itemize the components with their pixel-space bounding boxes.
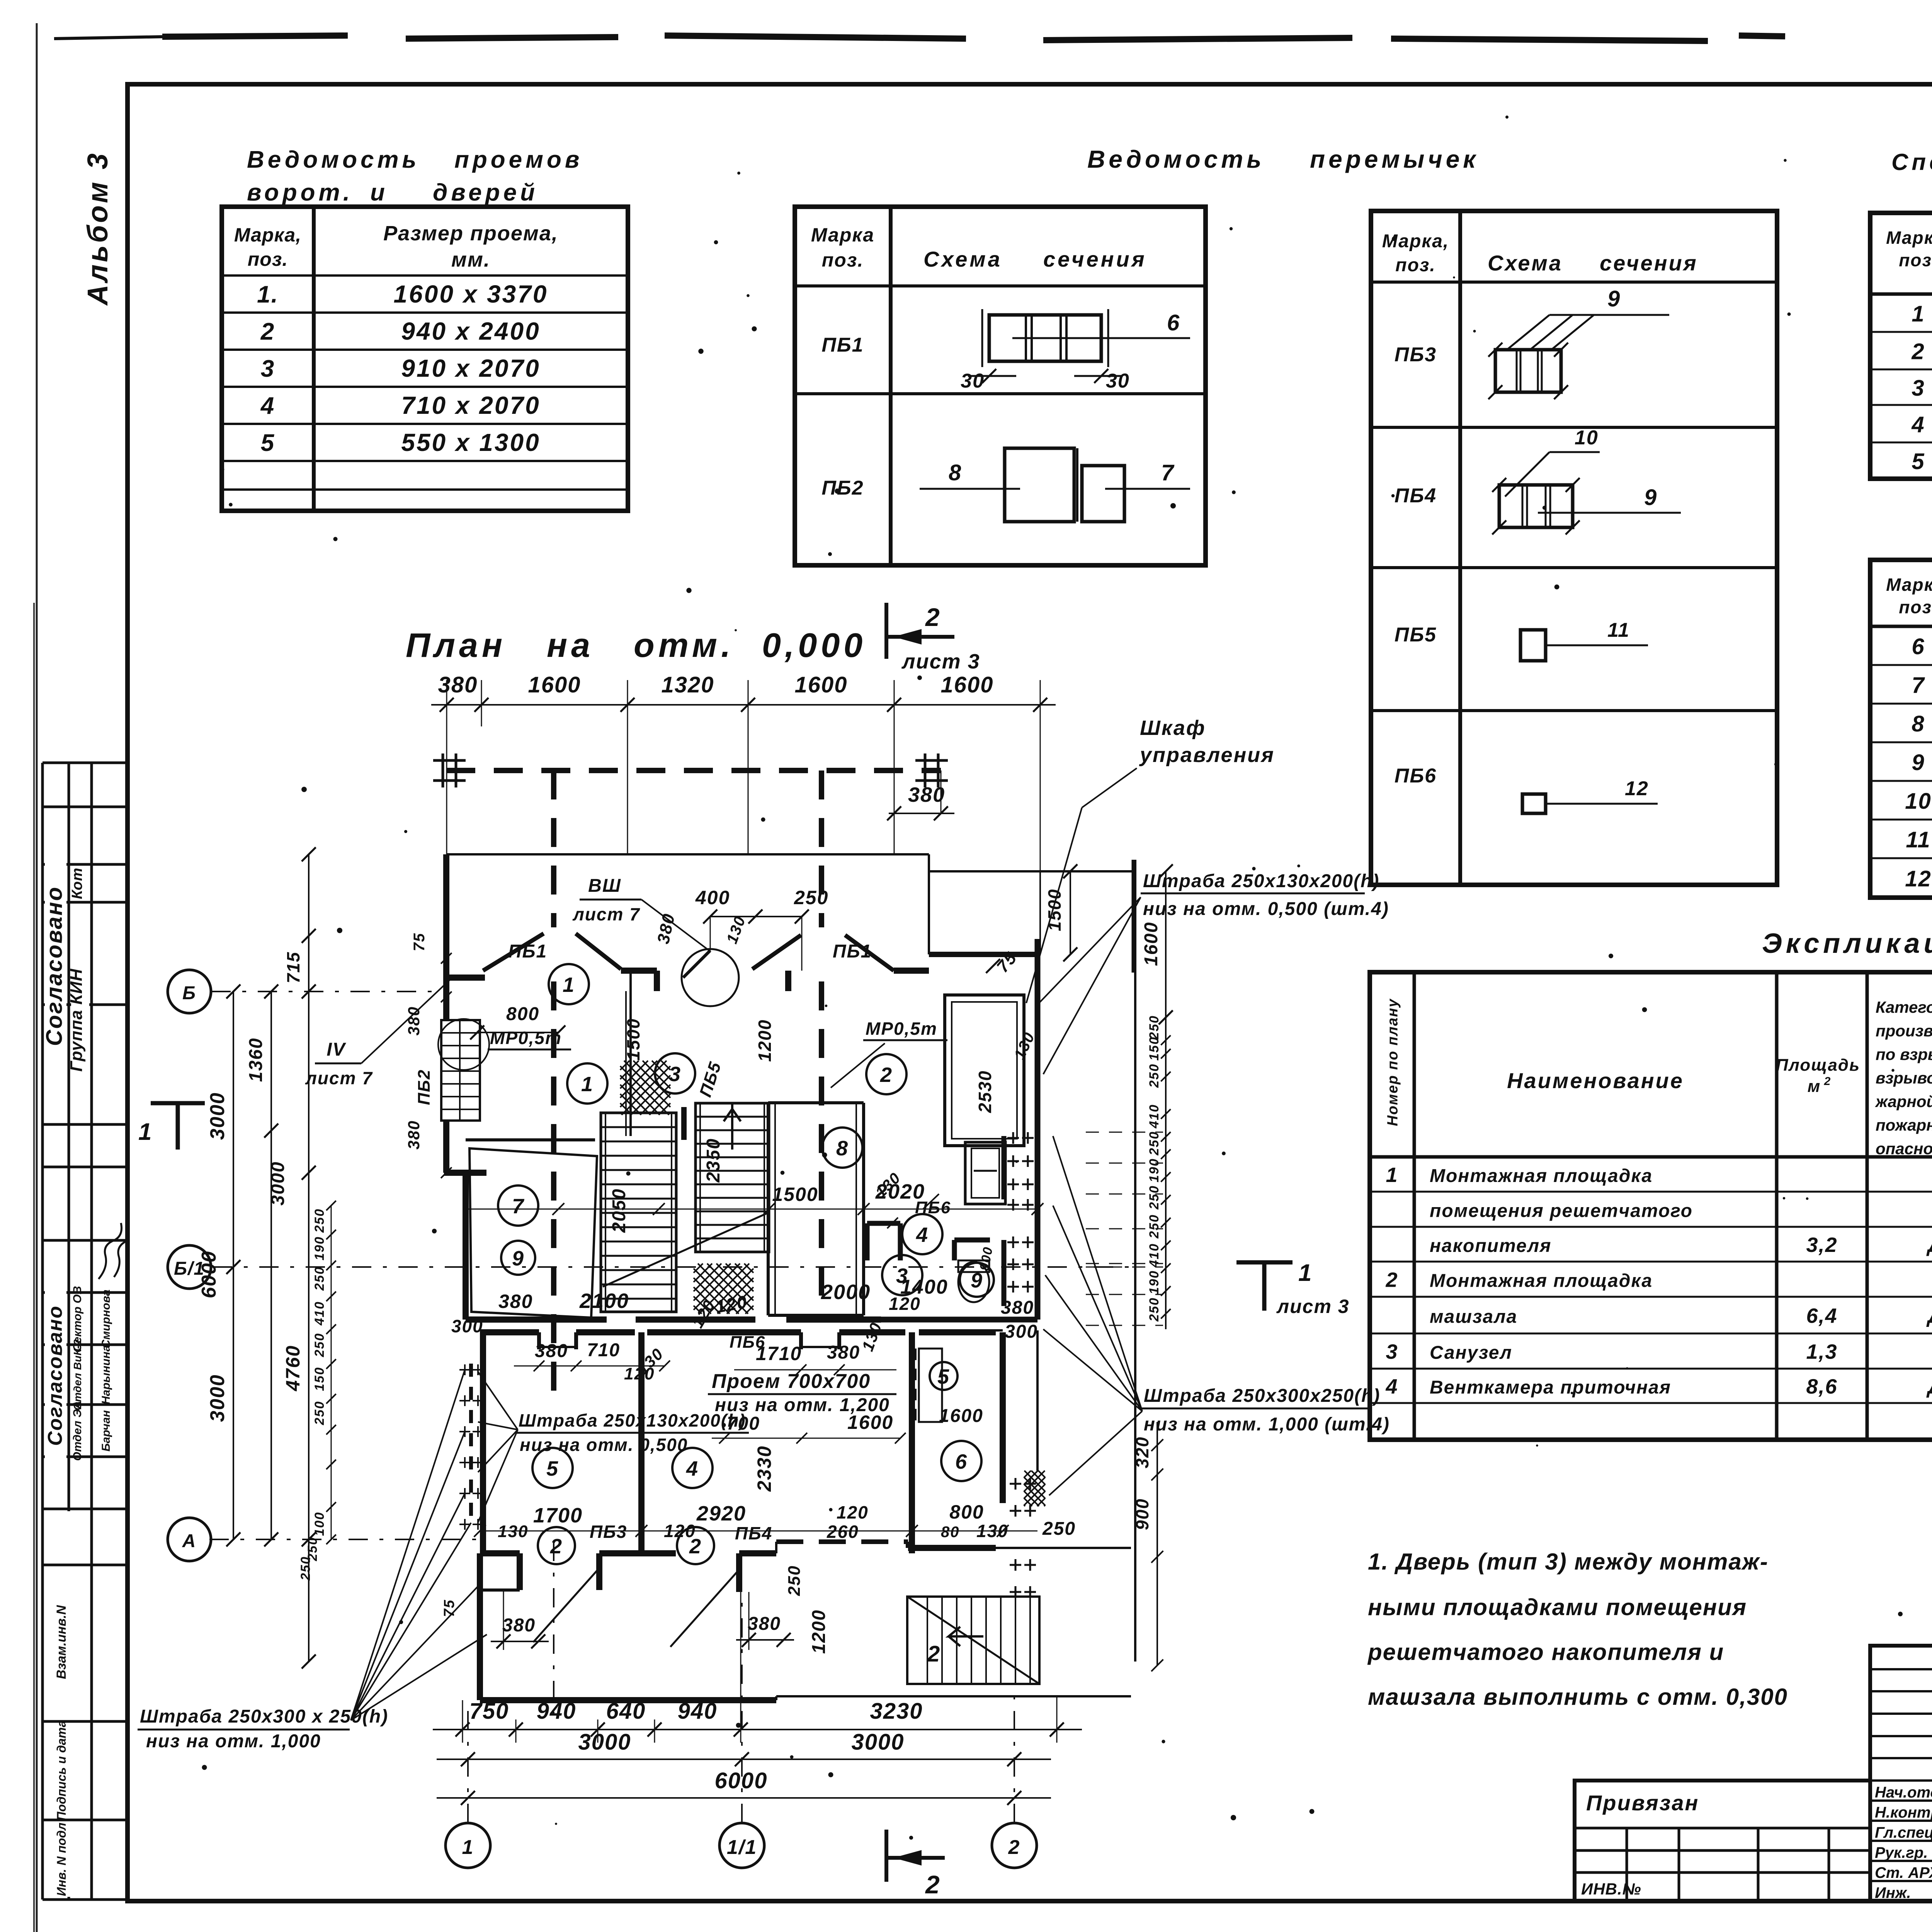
svg-text:2: 2 [1824, 1075, 1832, 1088]
svg-text:Кот: Кот [69, 867, 85, 899]
svg-text:Марка,: Марка, [1886, 228, 1932, 248]
svg-text:ПБ2: ПБ2 [821, 477, 864, 499]
svg-text:10: 10 [1575, 427, 1599, 449]
svg-text:Проем 700х700: Проем 700х700 [712, 1370, 871, 1393]
svg-text:2: 2 [1008, 1836, 1020, 1859]
svg-text:1600: 1600 [940, 672, 993, 697]
svg-text:1500: 1500 [772, 1184, 818, 1205]
svg-text:ПБ4: ПБ4 [735, 1523, 772, 1543]
svg-text:Схема: Схема [1488, 251, 1563, 275]
svg-text:4: 4 [1385, 1375, 1398, 1398]
svg-text:10: 10 [1905, 789, 1932, 814]
svg-text:250: 250 [794, 887, 828, 908]
svg-text:ПБ3: ПБ3 [590, 1522, 627, 1542]
svg-text:750: 750 [469, 1699, 509, 1724]
svg-text:320: 320 [1132, 1436, 1152, 1468]
svg-text:производства: производства [1876, 1022, 1932, 1040]
svg-text:130: 130 [498, 1522, 528, 1541]
svg-text:Смирнова: Смирнова [100, 1289, 112, 1348]
svg-text:1500: 1500 [1044, 889, 1065, 931]
svg-text:250: 250 [312, 1208, 327, 1233]
svg-text:ными площадками помещения: ными площадками помещения [1368, 1594, 1747, 1620]
svg-text:Отдел ВиК-2: Отдел ВиК-2 [71, 1339, 83, 1410]
svg-text:7: 7 [1161, 460, 1175, 485]
svg-text:150: 150 [312, 1367, 327, 1391]
svg-text:1600: 1600 [1141, 922, 1162, 966]
svg-text:Н.контр: Н.контр [1875, 1804, 1932, 1821]
svg-text:1: 1 [1298, 1260, 1312, 1286]
svg-text:380: 380 [748, 1614, 781, 1634]
svg-text:Группа КИН: Группа КИН [67, 968, 86, 1071]
svg-text:8: 8 [836, 1137, 849, 1160]
svg-text:Отдел ЭА: Отдел ЭА [71, 1401, 84, 1461]
svg-text:1. Дверь (тип 3) между монт: 1. Дверь (тип 3) между монтаж- [1368, 1549, 1769, 1575]
svg-text:120: 120 [664, 1521, 696, 1541]
svg-text:6: 6 [1912, 634, 1925, 659]
svg-text:проемов: проемов [454, 146, 583, 173]
svg-text:2920: 2920 [696, 1502, 746, 1525]
svg-text:0,000: 0,000 [762, 626, 866, 664]
svg-text:Согласовано: Согласовано [44, 1305, 66, 1446]
svg-text:поз.: поз. [1899, 597, 1932, 617]
svg-text:3230: 3230 [870, 1699, 923, 1724]
svg-text:жарной и: жарной и [1875, 1092, 1932, 1111]
svg-text:машзала выполнить с отм. 0,: машзала выполнить с отм. 0,300 [1368, 1684, 1788, 1710]
svg-text:помещения решетчатого: помещения решетчатого [1430, 1201, 1693, 1221]
svg-text:дверей: дверей [433, 179, 538, 206]
svg-text:120: 120 [889, 1294, 921, 1314]
svg-text:3: 3 [1912, 376, 1925, 401]
svg-text:6: 6 [1167, 310, 1180, 335]
svg-text:6000: 6000 [198, 1250, 220, 1298]
svg-text:перемычек: перемычек [1310, 145, 1479, 173]
svg-text:9: 9 [1912, 750, 1925, 775]
svg-text:940 х 2400: 940 х 2400 [401, 317, 540, 345]
svg-text:550 х 1300: 550 х 1300 [401, 429, 540, 456]
svg-text:IV: IV [327, 1039, 346, 1060]
svg-text:Согласовано: Согласовано [42, 886, 67, 1046]
svg-text:Шкаф: Шкаф [1140, 716, 1206, 740]
svg-text:Марка,: Марка, [1382, 231, 1449, 252]
svg-text:1: 1 [581, 1073, 594, 1096]
svg-text:260: 260 [827, 1522, 859, 1542]
svg-text:Наименование: Наименование [1507, 1068, 1684, 1093]
svg-text:по взрывной,: по взрывной, [1876, 1045, 1932, 1063]
svg-text:4: 4 [686, 1457, 699, 1480]
svg-text:Венткамера приточная: Венткамера приточная [1430, 1378, 1671, 1398]
svg-text:5: 5 [546, 1457, 559, 1480]
svg-text:машзала: машзала [1430, 1307, 1517, 1327]
svg-text:ПБ1: ПБ1 [833, 941, 872, 962]
svg-text:11: 11 [1607, 619, 1630, 641]
svg-text:Взам.инв.N: Взам.инв.N [54, 1605, 69, 1679]
svg-text:1500: 1500 [623, 1018, 643, 1061]
svg-text:лист 3: лист 3 [901, 650, 980, 673]
svg-text:3000: 3000 [268, 1161, 288, 1206]
svg-text:710: 710 [587, 1340, 620, 1361]
svg-text:800: 800 [949, 1501, 984, 1523]
svg-text:Рук.гр.: Рук.гр. [1875, 1844, 1928, 1861]
svg-text:Альбом 3: Альбом 3 [82, 151, 114, 306]
svg-text:190: 190 [1147, 1158, 1162, 1182]
svg-text:1: 1 [1386, 1163, 1398, 1187]
svg-text:7: 7 [512, 1195, 525, 1218]
svg-text:Монтажная площадка: Монтажная площадка [1430, 1166, 1653, 1186]
svg-text:ПБ5: ПБ5 [1395, 624, 1437, 646]
svg-text:Марка: Марка [811, 224, 874, 246]
svg-text:решетчатого накопителя и: решетчатого накопителя и [1367, 1639, 1724, 1665]
svg-text:4: 4 [260, 393, 275, 419]
svg-text:800: 800 [506, 1004, 539, 1024]
svg-text:Ведомость: Ведомость [1087, 145, 1265, 173]
svg-text:2: 2 [550, 1535, 563, 1558]
svg-text:ПБ1: ПБ1 [821, 334, 864, 356]
svg-text:2350: 2350 [703, 1138, 724, 1183]
svg-text:Нарынина: Нарынина [100, 1345, 112, 1405]
svg-text:380: 380 [498, 1291, 533, 1312]
svg-text:Размер проема,: Размер проема, [383, 222, 558, 245]
svg-text:4760: 4760 [282, 1345, 304, 1391]
svg-text:лист 7: лист 7 [572, 904, 640, 924]
svg-text:2: 2 [925, 603, 940, 631]
svg-text:поз.: поз. [1395, 255, 1435, 276]
svg-text:управления: управления [1139, 743, 1275, 767]
svg-text:250: 250 [298, 1556, 313, 1581]
svg-text:9: 9 [1644, 485, 1657, 510]
svg-text:715: 715 [283, 951, 303, 983]
svg-text:3,2: 3,2 [1806, 1233, 1837, 1257]
svg-text:Ведомость: Ведомость [247, 146, 420, 173]
svg-text:75: 75 [441, 1599, 457, 1617]
svg-text:ВШ: ВШ [588, 876, 621, 896]
svg-text:700: 700 [727, 1413, 760, 1434]
svg-text:отм.: отм. [634, 626, 734, 664]
svg-text:Инв. N подл: Инв. N подл [54, 1823, 68, 1896]
svg-text:30: 30 [1106, 370, 1130, 392]
svg-text:низ на отм. 1,000 (шт.4): низ на отм. 1,000 (шт.4) [1144, 1414, 1390, 1435]
svg-text:ворот.: ворот. [247, 179, 353, 206]
svg-text:лист 3: лист 3 [1276, 1296, 1350, 1317]
svg-text:8,6: 8,6 [1806, 1375, 1837, 1398]
svg-text:900: 900 [1132, 1498, 1152, 1530]
svg-text:Гл.спец: Гл.спец [1875, 1824, 1932, 1841]
svg-text:1.: 1. [257, 281, 279, 308]
svg-text:опасности: опасности [1876, 1139, 1932, 1158]
svg-text:300: 300 [1005, 1321, 1038, 1342]
svg-text:9: 9 [1607, 286, 1621, 311]
svg-text:поз.: поз. [822, 249, 864, 271]
svg-text:2: 2 [880, 1063, 893, 1087]
svg-text:Подпись и дата: Подпись и дата [54, 1720, 68, 1820]
svg-text:сечения: сечения [1043, 247, 1147, 271]
svg-text:сечения: сечения [1600, 251, 1698, 275]
svg-text:75: 75 [411, 933, 428, 952]
svg-text:поз.: поз. [1899, 250, 1932, 270]
svg-text:380: 380 [502, 1615, 536, 1636]
svg-text:1,3: 1,3 [1806, 1340, 1837, 1364]
svg-text:Штраба 250х130х200(h): Штраба 250х130х200(h) [519, 1410, 746, 1430]
svg-text:Б: Б [182, 983, 196, 1003]
svg-text:100: 100 [312, 1512, 327, 1536]
svg-text:3000: 3000 [578, 1730, 631, 1755]
svg-text:2: 2 [260, 318, 275, 345]
svg-text:на: на [547, 626, 594, 664]
svg-text:1600: 1600 [794, 672, 847, 697]
svg-text:250: 250 [312, 1266, 327, 1291]
svg-text:Схема: Схема [923, 247, 1002, 271]
svg-text:250: 250 [1042, 1519, 1076, 1539]
svg-text:2: 2 [1385, 1269, 1398, 1292]
svg-text:Площадь: Площадь [1776, 1056, 1860, 1075]
svg-text:Ст. АРХ: Ст. АРХ [1875, 1864, 1932, 1881]
svg-text:Штраба 250х300х250(h): Штраба 250х300х250(h) [1144, 1386, 1380, 1406]
svg-text:1600: 1600 [528, 672, 581, 697]
svg-text:1: 1 [563, 973, 575, 997]
svg-text:120: 120 [624, 1364, 655, 1383]
svg-text:300: 300 [451, 1316, 483, 1336]
svg-text:поз.: поз. [248, 248, 288, 270]
svg-text:2000: 2000 [821, 1281, 871, 1304]
svg-text:1360: 1360 [246, 1037, 266, 1082]
svg-text:ПБ3: ПБ3 [1395, 344, 1437, 366]
svg-text:Монтажная площадка: Монтажная площадка [1430, 1271, 1653, 1291]
svg-text:2530: 2530 [975, 1070, 995, 1113]
svg-text:6: 6 [955, 1450, 968, 1473]
svg-text:380: 380 [535, 1341, 568, 1361]
svg-text:Инж.: Инж. [1875, 1884, 1911, 1901]
svg-text:Номер по плану: Номер по плану [1385, 998, 1401, 1126]
svg-text:Штраба 250х300 х 250(h): Штраба 250х300 х 250(h) [140, 1706, 388, 1727]
svg-text:1: 1 [462, 1836, 474, 1859]
svg-text:пожарной: пожарной [1876, 1116, 1932, 1134]
svg-text:250: 250 [785, 1565, 804, 1596]
svg-text:Спецификация: Спецификация [1891, 149, 1932, 175]
svg-text:2330: 2330 [753, 1446, 775, 1492]
svg-text:640: 640 [606, 1699, 646, 1724]
svg-text:410: 410 [1147, 1104, 1162, 1129]
svg-text:12: 12 [1625, 777, 1649, 800]
svg-text:Экспликация: Экспликация [1762, 928, 1932, 959]
svg-text:Категория: Категория [1876, 998, 1932, 1016]
svg-text:3: 3 [261, 355, 275, 382]
svg-text:12: 12 [1905, 866, 1932, 891]
svg-text:ИНВ.№: ИНВ.№ [1581, 1880, 1641, 1898]
svg-text:МР0,5т: МР0,5т [490, 1028, 562, 1048]
svg-text:11: 11 [1906, 827, 1930, 852]
svg-text:низ на отм. 0,500 (шт.4): низ на отм. 0,500 (шт.4) [1143, 899, 1389, 919]
svg-text:4: 4 [916, 1223, 929, 1247]
svg-text:5: 5 [261, 430, 275, 456]
svg-text:5: 5 [1912, 449, 1925, 474]
svg-text:ПБ6: ПБ6 [1395, 765, 1437, 787]
svg-text:1600 х 3370: 1600 х 3370 [394, 280, 548, 308]
svg-text:1710: 1710 [756, 1343, 802, 1364]
svg-text:ПБ1: ПБ1 [508, 941, 547, 962]
svg-text:Привязан: Привязан [1586, 1791, 1699, 1815]
svg-text:2020: 2020 [875, 1180, 925, 1203]
svg-text:3000: 3000 [851, 1730, 904, 1755]
svg-text:ПБ2: ПБ2 [415, 1069, 434, 1105]
svg-text:2: 2 [927, 1641, 940, 1667]
svg-text:ПБ4: ПБ4 [1395, 485, 1437, 507]
svg-text:м: м [1808, 1077, 1821, 1096]
svg-text:Марка,: Марка, [1886, 575, 1932, 595]
svg-text:190: 190 [1147, 1270, 1162, 1294]
svg-text:Марка,: Марка, [234, 224, 301, 246]
svg-text:1320: 1320 [661, 672, 714, 697]
svg-text:8: 8 [949, 460, 962, 485]
svg-text:30: 30 [961, 370, 985, 392]
svg-text:Штраба 250х130х200(h): Штраба 250х130х200(h) [1143, 871, 1379, 891]
svg-text:1200: 1200 [809, 1609, 829, 1654]
svg-text:250: 250 [312, 1333, 327, 1357]
svg-text:и: и [370, 179, 388, 206]
svg-text:1: 1 [1912, 301, 1925, 327]
svg-text:1200: 1200 [755, 1019, 775, 1062]
svg-text:120: 120 [837, 1502, 869, 1522]
svg-text:2: 2 [925, 1870, 940, 1899]
svg-text:3: 3 [669, 1063, 681, 1086]
svg-text:4: 4 [1911, 412, 1925, 437]
svg-text:910 х 2070: 910 х 2070 [401, 354, 540, 382]
svg-text:940: 940 [678, 1699, 718, 1724]
svg-text:2050: 2050 [609, 1188, 629, 1233]
svg-text:низ на отм. 1,000: низ на отм. 1,000 [146, 1731, 321, 1752]
svg-text:250: 250 [1147, 1214, 1162, 1239]
svg-text:250: 250 [1147, 1015, 1162, 1040]
svg-text:710 х 2070: 710 х 2070 [401, 391, 540, 419]
svg-text:380: 380 [908, 783, 945, 806]
svg-text:8: 8 [1912, 711, 1925, 736]
svg-text:низ на отм. 0,500: низ на отм. 0,500 [520, 1435, 688, 1455]
svg-text:3000: 3000 [206, 1374, 229, 1422]
svg-text:лист 7: лист 7 [305, 1068, 373, 1088]
svg-text:1600: 1600 [847, 1412, 893, 1433]
svg-text:Санузел: Санузел [1430, 1343, 1512, 1363]
svg-text:1600: 1600 [939, 1406, 983, 1426]
svg-text:410: 410 [1147, 1243, 1162, 1268]
svg-text:2100: 2100 [579, 1289, 629, 1313]
svg-text:380: 380 [405, 1006, 423, 1036]
svg-text:1700: 1700 [533, 1504, 583, 1527]
svg-text:7: 7 [1912, 673, 1925, 698]
svg-text:250: 250 [1147, 1185, 1162, 1210]
svg-text:250: 250 [1147, 1131, 1162, 1156]
svg-text:380: 380 [405, 1120, 423, 1150]
svg-text:3000: 3000 [206, 1092, 229, 1140]
svg-text:1: 1 [138, 1119, 152, 1145]
svg-text:400: 400 [695, 887, 730, 908]
svg-text:взрыво- по: взрыво- по [1876, 1069, 1932, 1087]
svg-text:250: 250 [1147, 1297, 1162, 1322]
svg-text:накопителя: накопителя [1430, 1236, 1551, 1256]
svg-text:1/1: 1/1 [727, 1836, 757, 1859]
svg-text:250: 250 [1147, 1063, 1162, 1088]
svg-text:130: 130 [976, 1521, 1009, 1541]
svg-text:380: 380 [827, 1342, 860, 1363]
svg-text:380: 380 [438, 672, 478, 697]
svg-text:Нач.отд: Нач.отд [1875, 1784, 1932, 1801]
svg-text:3: 3 [1386, 1340, 1398, 1364]
svg-text:мм.: мм. [451, 248, 490, 271]
svg-text:80: 80 [941, 1524, 960, 1541]
svg-text:Барчан: Барчан [100, 1410, 112, 1451]
svg-text:2: 2 [1911, 339, 1925, 364]
svg-text:6,4: 6,4 [1806, 1304, 1837, 1328]
svg-text:План: План [406, 626, 506, 664]
svg-text:190: 190 [312, 1236, 327, 1260]
svg-text:МР0,5т: МР0,5т [866, 1019, 937, 1039]
svg-text:5: 5 [937, 1365, 950, 1388]
svg-text:А: А [182, 1531, 197, 1551]
svg-text:380: 380 [1001, 1298, 1034, 1318]
svg-text:940: 940 [537, 1699, 577, 1724]
svg-text:250: 250 [312, 1401, 327, 1425]
svg-text:150: 150 [1147, 1036, 1162, 1061]
svg-text:410: 410 [312, 1301, 327, 1326]
